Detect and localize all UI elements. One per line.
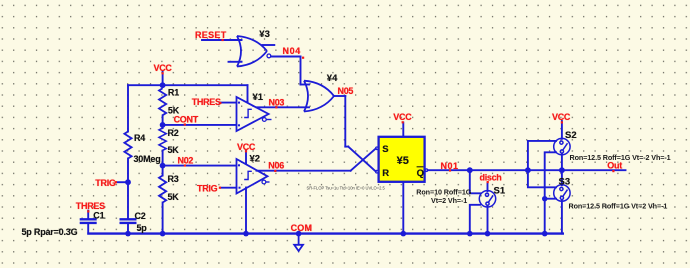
wire disch stub [487, 183, 489, 191]
svg-text:S3: S3 [559, 177, 571, 188]
flip-flop ¥5 [379, 137, 425, 182]
svg-text:Ron=12.5 Roff=1G Vt=-2 Vh=-1: Ron=12.5 Roff=1G Vt=-2 Vh=-1 [570, 153, 671, 162]
svg-text:Q: Q [417, 168, 424, 179]
wire VCC stub top-left [162, 72, 164, 86]
OR gate ¥4 [304, 81, 334, 112]
wire ¥5 ground drop [402, 182, 404, 234]
wire N01 output [428, 169, 626, 171]
wire S2 control from N01 [528, 141, 556, 170]
wire S1 bottom lead [487, 206, 489, 233]
svg-text:S: S [382, 144, 388, 155]
svg-text:¥5: ¥5 [397, 155, 409, 167]
comparator ¥1 pin dots [238, 101, 249, 127]
wire CONT to ¥1 [163, 124, 237, 126]
svg-text:N05: N05 [338, 86, 354, 96]
svg-text:S2: S2 [565, 130, 577, 141]
wire ¥1 power drop [247, 85, 249, 101]
svg-text:TRIG: TRIG [95, 178, 116, 188]
wire left branch upper [127, 85, 129, 131]
capacitor C2 [120, 219, 137, 223]
svg-text:5K: 5K [168, 106, 180, 116]
svg-text:VCC: VCC [552, 112, 571, 122]
svg-text:THRES: THRES [192, 97, 221, 107]
wire TRIG stub to ¥2 [221, 187, 237, 189]
junction N02 node [160, 163, 166, 169]
svg-text:R: R [382, 168, 389, 179]
junction TRIG node [125, 179, 131, 185]
svg-text:RESET: RESET [195, 30, 227, 40]
switch S3 [554, 185, 570, 201]
svg-text:COM: COM [291, 223, 313, 233]
svg-text:¥2: ¥2 [250, 153, 261, 164]
switch S2 [554, 138, 570, 154]
wire COM bottom rail [89, 232, 563, 234]
wire N06 horizontal [257, 170, 351, 172]
wire N04 into ¥4 [301, 84, 310, 86]
wire S2 bottom lead [561, 154, 563, 170]
comparator ¥2 pin dots [238, 163, 247, 189]
svg-text:disch: disch [480, 172, 502, 182]
svg-text:VCC: VCC [393, 112, 412, 122]
wire VCC rail to left branch [128, 84, 163, 86]
junction Out / S2 S3 [559, 167, 565, 173]
comparator ¥2 [237, 159, 270, 194]
wire N05 vertical [344, 96, 346, 147]
svg-text:R3: R3 [168, 174, 179, 184]
wire R1 bottom lead [162, 115, 164, 128]
wire N04 horizontal [271, 56, 301, 58]
svg-text:N06: N06 [268, 160, 284, 170]
svg-text:R4: R4 [134, 133, 145, 143]
junction comparator gnd / COM rail [243, 231, 249, 237]
NOR gate ¥3 [237, 36, 271, 67]
junction N01 / S1 control [467, 167, 473, 173]
wire C2 bottom lead [127, 224, 129, 234]
capacitor C1 [80, 219, 97, 223]
junction flip-flop gnd / COM rail [401, 231, 407, 237]
svg-text:¥3: ¥3 [259, 29, 270, 40]
wire S2 lower control line [545, 152, 556, 233]
wire R2 bottom lead [162, 151, 164, 176]
svg-text:30Meg: 30Meg [134, 154, 161, 164]
svg-text:R1: R1 [168, 88, 179, 98]
wire C1 bottom lead [87, 224, 89, 234]
junction CONT node [160, 122, 166, 128]
wire N05 jog [345, 146, 348, 148]
svg-text:Ron=12.5 Roff=1G Vt=2 Vh=-1: Ron=12.5 Roff=1G Vt=2 Vh=-1 [569, 202, 668, 211]
svg-text:Ron=10 Roff=1G: Ron=10 Roff=1G [416, 187, 471, 196]
junction S3 lower control / line B [542, 196, 547, 201]
flip-flop ¥5 S pin circle [376, 147, 379, 150]
resistor R2 [159, 128, 166, 150]
junction COM ground [296, 231, 302, 237]
wire S3 lower control stub [545, 198, 556, 200]
junction N01 / switch control line A [525, 167, 531, 173]
wire R3 bottom lead [162, 203, 164, 234]
ground COM [294, 234, 303, 251]
comparator ¥1 [237, 97, 272, 131]
svg-text:5p: 5p [137, 223, 148, 233]
svg-text:CONT: CONT [174, 114, 199, 124]
wire N05 out of ¥4 [334, 95, 345, 97]
junction R3 / COM rail [160, 231, 166, 237]
wire left branch lower [127, 159, 129, 219]
svg-text:S1: S1 [494, 186, 506, 197]
wire S1 control lower drop [470, 205, 480, 234]
junction C2 / COM rail [125, 231, 131, 237]
wire ¥3 second input stub [229, 61, 242, 63]
wire ¥5 VCC stub [402, 123, 404, 137]
junction S1 control / COM rail [467, 231, 473, 237]
svg-text:C2: C2 [135, 211, 146, 221]
svg-text:N04: N04 [283, 46, 301, 56]
wire N04 vertical [300, 57, 302, 85]
resistor R4 [124, 132, 131, 159]
svg-text:Vt=2 Vh=-1: Vt=2 Vh=-1 [431, 196, 467, 205]
wire S3 bottom lead [561, 201, 563, 234]
flip-flop ¥5 R pin circle [376, 170, 379, 173]
svg-text:5K: 5K [168, 192, 180, 202]
svg-text:5p Rpar=0.3G: 5p Rpar=0.3G [22, 227, 78, 237]
svg-text:N02: N02 [178, 156, 194, 166]
wire N06 diagonal to S pin [351, 149, 376, 171]
wire ¥2 ground pin [245, 188, 247, 234]
wire TRIG to left branch [117, 181, 128, 183]
svg-text:SR-FLOP Tsu=1u Ttd=10n IE=0 UV: SR-FLOP Tsu=1u Ttd=10n IE=0 UVLO=2.5 [307, 185, 386, 190]
switch S1 [479, 191, 495, 207]
wire N03 ¥1 out to ¥4 [257, 106, 310, 108]
svg-text:¥1: ¥1 [253, 92, 264, 103]
svg-text:TRIG: TRIG [197, 183, 218, 193]
wire C1 top stub [87, 211, 89, 219]
junction VCC node [160, 82, 166, 88]
wire VCC rail to U1 power [163, 84, 248, 86]
wire N02 to ¥2 [163, 165, 237, 167]
wire RESET to ¥3 [202, 39, 242, 41]
wire S1 control upper drop [470, 170, 481, 193]
resistor R1 [159, 88, 166, 115]
resistor R3 [159, 176, 166, 203]
wire ¥3 true output stub [263, 44, 275, 46]
svg-text:R2: R2 [168, 128, 179, 138]
wire S3 top lead [561, 170, 563, 185]
wire ¥2 VCC tick [245, 151, 247, 164]
svg-text:¥4: ¥4 [327, 73, 338, 84]
wire S3 control from N01 [528, 170, 556, 187]
junction ctrl line B / COM rail [542, 231, 548, 237]
red anchor ticks [87, 39, 614, 213]
flip-flop ¥5 Q pin circle [425, 169, 428, 172]
junction S1 / COM rail [485, 231, 491, 237]
wire THRES stub to ¥1 [220, 102, 237, 104]
svg-text:5K: 5K [168, 145, 180, 155]
wire N05 diagonal to R pin [348, 147, 376, 172]
svg-text:N03: N03 [269, 98, 285, 108]
wire S2 VCC lead [561, 121, 563, 139]
svg-text:VCC: VCC [154, 63, 173, 73]
svg-text:C1: C1 [93, 210, 104, 220]
